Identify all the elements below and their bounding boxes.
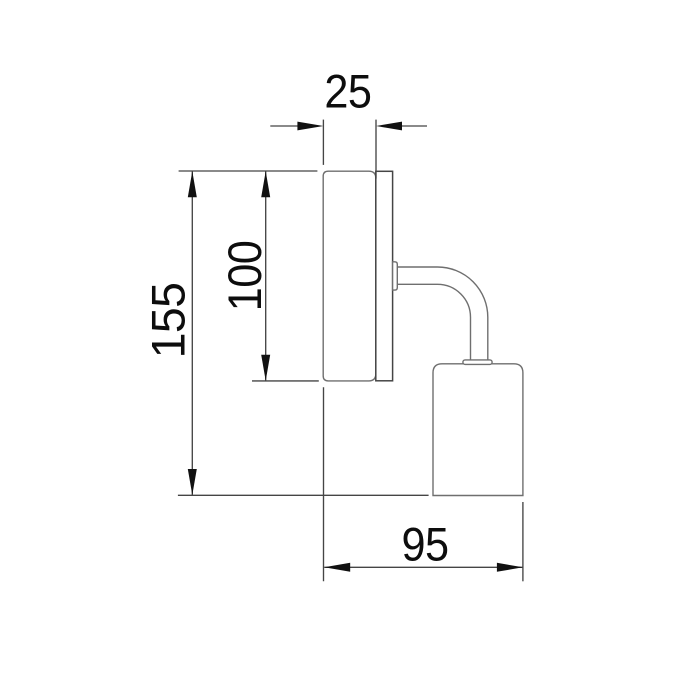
dimension 155: dimension line bbox=[191, 171, 193, 495]
dimension 100: bottom arrow bbox=[261, 355, 270, 381]
dimension 25: left arrow bbox=[297, 122, 323, 131]
curved arm tube outer edge bbox=[397, 267, 488, 360]
curved arm tube inner edge bbox=[397, 284, 470, 360]
dimension 100: bottom extension line bbox=[252, 380, 319, 382]
dimension 155: bottom arrow bbox=[188, 469, 197, 495]
dimension 25: right arrow bbox=[376, 122, 402, 131]
lamp shade (cylinder) bbox=[433, 364, 523, 496]
shade collar flange bbox=[463, 360, 492, 365]
dimension 155: bottom extension line bbox=[178, 494, 429, 496]
dimension 95: left extension line bbox=[323, 387, 325, 581]
dimension 100: dimension line bbox=[265, 171, 267, 381]
dimension 95: right arrow bbox=[497, 563, 523, 572]
dimension 155: top arrow bbox=[188, 171, 197, 197]
arm bracket stub bbox=[393, 262, 398, 290]
svg-text:155: 155 bbox=[142, 283, 194, 359]
dimension 25: right extension line bbox=[375, 120, 377, 179]
dimension 95: left arrow bbox=[324, 563, 350, 572]
svg-text:100: 100 bbox=[218, 241, 271, 311]
wall mounting plate bbox=[376, 171, 393, 380]
dimension 100: top arrow bbox=[261, 171, 270, 197]
lamp body (canopy, side view) bbox=[323, 171, 376, 381]
dimension 25: left dimension line bbox=[270, 125, 299, 127]
dimension 25: left extension line bbox=[322, 120, 324, 165]
svg-text:25: 25 bbox=[324, 65, 371, 118]
dimension 95: dimension line bbox=[324, 566, 523, 568]
svg-text:95: 95 bbox=[402, 518, 449, 571]
dimension 25: right dimension line bbox=[401, 125, 428, 127]
dimension 95: right extension line bbox=[522, 502, 524, 581]
dimension 155/100: top extension line bbox=[179, 170, 318, 172]
